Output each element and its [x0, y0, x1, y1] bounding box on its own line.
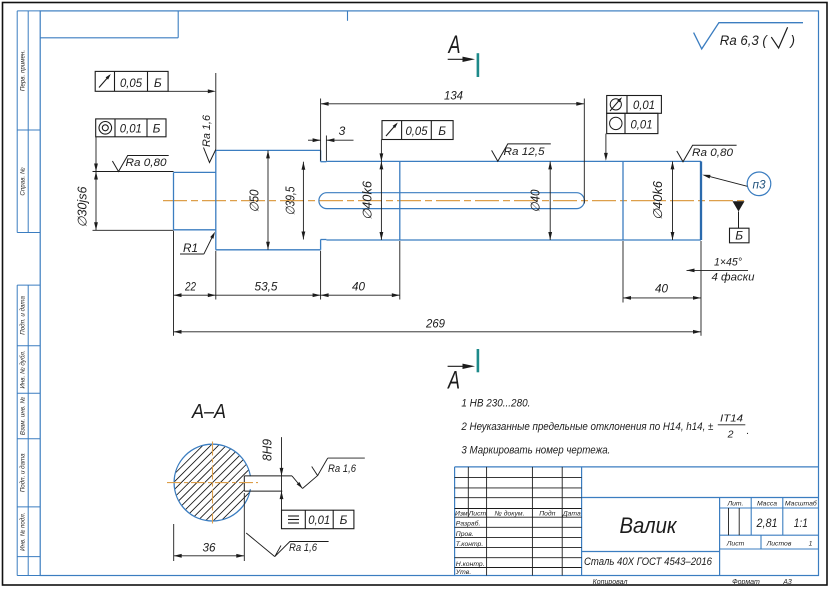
- svg-text:Справ. №: Справ. №: [20, 167, 27, 195]
- dimension 40 left: [321, 280, 400, 298]
- svg-text:.: .: [747, 425, 750, 437]
- dimension 8H9: [261, 437, 284, 510]
- svg-text:Копировал: Копировал: [593, 579, 628, 586]
- dimension d40k6 left + leader of frame 0.05: [361, 140, 384, 241]
- svg-text:Ra 0,80: Ra 0,80: [692, 147, 734, 159]
- svg-text:269: 269: [425, 317, 445, 331]
- svg-text:Лит.: Лит.: [726, 501, 743, 508]
- left margin strip lower: [17, 285, 40, 575]
- tolerance frame total runout 0.01: [607, 96, 662, 114]
- svg-text:∅30js6: ∅30js6: [76, 186, 90, 227]
- shaft right end face: [700, 161, 702, 240]
- shaft body d40 sections: [326, 161, 701, 240]
- svg-text:Б: Б: [735, 229, 743, 243]
- section A-A circle: [174, 444, 251, 521]
- general roughness Ra 6.3 top right: [694, 23, 803, 49]
- dimension 36: [174, 493, 245, 561]
- svg-text:№ докум.: № докум.: [495, 509, 525, 517]
- tolerance frame runout 0.05 B (middle): [382, 121, 453, 140]
- svg-text:Лист: Лист: [726, 541, 745, 548]
- svg-text:Сталь 40Х ГОСТ 4543–2016: Сталь 40Х ГОСТ 4543–2016: [584, 556, 713, 568]
- dimension 53.5: [216, 280, 321, 298]
- svg-text:∅40k6: ∅40k6: [651, 181, 665, 220]
- footer Формат А3: [732, 579, 792, 586]
- roughness Ra 1.6 keyway bottom: [246, 533, 328, 557]
- section A-A centrelines: [167, 442, 258, 524]
- svg-text:Т.контр.: Т.контр.: [456, 541, 484, 548]
- top frame tick: [347, 11, 349, 21]
- svg-text:R1: R1: [183, 241, 198, 255]
- svg-text:∅40k6: ∅40k6: [361, 181, 375, 220]
- svg-text:∅50: ∅50: [248, 189, 262, 212]
- svg-text:1×45°: 1×45°: [714, 257, 743, 269]
- svg-text:Инв. № подл.: Инв. № подл.: [20, 512, 27, 550]
- svg-text:40: 40: [655, 282, 668, 296]
- roughness Ra 0.80 on d30js6: [112, 156, 168, 172]
- svg-text:2,81: 2,81: [756, 516, 778, 530]
- dimension 3 (groove): [308, 99, 354, 161]
- svg-text:Инв. № дубл.: Инв. № дубл.: [20, 350, 27, 388]
- chamfer note 1x45 4 faski: [687, 257, 755, 284]
- title block header texts: [455, 509, 581, 576]
- svg-text:0,01: 0,01: [120, 121, 142, 135]
- title block left grid: [455, 467, 740, 576]
- svg-text:2 Неуказанные предельные откло: 2 Неуказанные предельные отклонения по Н…: [461, 421, 714, 433]
- svg-text:Ra 1,6: Ra 1,6: [328, 463, 357, 475]
- groove d39.5: [321, 161, 327, 239]
- extension lines bottom: [174, 231, 702, 336]
- svg-text:134: 134: [444, 89, 463, 103]
- svg-text:Разраб.: Разраб.: [456, 520, 481, 528]
- svg-text:2: 2: [727, 429, 734, 441]
- svg-text:А3: А3: [782, 579, 792, 586]
- section mark A top: [447, 31, 479, 77]
- erase circle arc at keyway: [244, 476, 254, 489]
- svg-text:Б: Б: [340, 513, 348, 527]
- dimension d30js6: [76, 137, 174, 231]
- dimension 134: [321, 89, 585, 204]
- svg-text:Ra 0,80: Ra 0,80: [126, 157, 168, 169]
- svg-text:Лист: Лист: [468, 510, 487, 517]
- shaft centreline: [163, 200, 746, 202]
- svg-text:Дата: Дата: [562, 510, 581, 517]
- svg-text:Изм: Изм: [455, 510, 468, 517]
- section A-A keyway: [244, 476, 292, 491]
- dimension 22: [174, 280, 216, 298]
- svg-text:0,05: 0,05: [406, 124, 428, 138]
- dimension 269: [174, 317, 702, 334]
- shaft section d50: [216, 150, 321, 249]
- svg-text:Перв. примен.: Перв. примен.: [20, 50, 27, 91]
- svg-text:3 Маркировать номер чертежа.: 3 Маркировать номер чертежа.: [461, 445, 610, 457]
- svg-text:Б: Б: [154, 76, 162, 90]
- svg-text:п3: п3: [753, 177, 766, 191]
- svg-text:53,5: 53,5: [255, 280, 278, 294]
- svg-text:Б: Б: [438, 124, 446, 138]
- svg-text:Масса: Масса: [757, 501, 777, 508]
- svg-text:1:1: 1:1: [794, 516, 808, 530]
- svg-text:22: 22: [184, 280, 196, 294]
- svg-text:Ra 1,6: Ra 1,6: [201, 114, 213, 147]
- title block right headers: [726, 500, 818, 548]
- section mark A bottom: [447, 349, 480, 395]
- svg-text:0,01: 0,01: [308, 513, 330, 527]
- top-left document box: [40, 11, 178, 38]
- roughness Ra 12.5 on d40 middle: [492, 144, 551, 161]
- keyway slot (front view): [319, 193, 585, 209]
- dimension 40 right: [623, 282, 701, 300]
- svg-text:∅40: ∅40: [529, 189, 543, 212]
- position balloon p3: [702, 172, 771, 196]
- roughness Ra 1.6 keyway sides: [292, 458, 365, 488]
- svg-text:Взам. инв. №: Взам. инв. №: [20, 397, 27, 436]
- svg-text:Ra 1,6: Ra 1,6: [289, 542, 318, 554]
- title block outline: [455, 467, 819, 576]
- svg-text:0,01: 0,01: [631, 118, 653, 132]
- tolerance frame concentricity 0.01 B: [96, 119, 166, 137]
- shaft section d30js6: [174, 172, 216, 229]
- svg-text:1: 1: [809, 541, 813, 548]
- svg-text:8Н9: 8Н9: [261, 439, 275, 461]
- svg-text:Н.контр.: Н.контр.: [456, 561, 485, 568]
- svg-text:Утв.: Утв.: [455, 569, 472, 576]
- svg-text:1 НВ 230...280.: 1 НВ 230...280.: [461, 398, 530, 410]
- svg-text:Ra 6,3 (: Ra 6,3 (: [720, 33, 768, 48]
- svg-text:40: 40: [352, 280, 365, 294]
- svg-text:3: 3: [339, 124, 346, 138]
- datum symbol B: [730, 201, 750, 243]
- dimension d40 middle: [529, 161, 553, 240]
- tolerance frame circularity 0.01: [604, 113, 658, 161]
- svg-text:Б: Б: [153, 121, 161, 135]
- svg-text:Ra 12,5: Ra 12,5: [504, 146, 546, 158]
- svg-text:Пров.: Пров.: [456, 531, 474, 538]
- svg-text:Подп: Подп: [539, 509, 555, 517]
- svg-text:А–А: А–А: [191, 401, 226, 423]
- section A-A hatching: [168, 328, 264, 593]
- dimension d39.5: [284, 162, 306, 240]
- svg-text:IT14: IT14: [720, 413, 743, 425]
- svg-text:Масштаб: Масштаб: [785, 500, 818, 508]
- svg-text:∅39,5: ∅39,5: [284, 186, 298, 215]
- note 2 with fraction IT14/2: [461, 413, 750, 441]
- roughness Ra 1.6 rotated at shoulder: [201, 114, 216, 162]
- svg-text:0,05: 0,05: [120, 76, 142, 90]
- svg-text:А: А: [447, 31, 460, 59]
- svg-text:Листов: Листов: [766, 541, 792, 548]
- svg-text:Формат: Формат: [732, 579, 760, 586]
- svg-text:36: 36: [203, 541, 216, 555]
- roughness Ra 0.80 on right journal: [677, 145, 737, 162]
- dimension d40k6 right: [651, 161, 674, 240]
- svg-text:Валик: Валик: [620, 513, 678, 538]
- svg-text:Подп. и дата: Подп. и дата: [20, 453, 27, 492]
- symmetry tolerance frame 0.01 B: [282, 510, 354, 529]
- left margin strip upper: [17, 11, 40, 233]
- svg-text:0,01: 0,01: [633, 98, 655, 112]
- fillet callout R1: [180, 232, 215, 255]
- svg-text:4 фаски: 4 фаски: [712, 272, 755, 284]
- svg-text:А: А: [447, 367, 460, 395]
- dimension d50: [248, 150, 270, 249]
- tolerance frame runout 0.05 B (left): [95, 71, 216, 149]
- svg-text:Подп. и дата: Подп. и дата: [20, 295, 27, 334]
